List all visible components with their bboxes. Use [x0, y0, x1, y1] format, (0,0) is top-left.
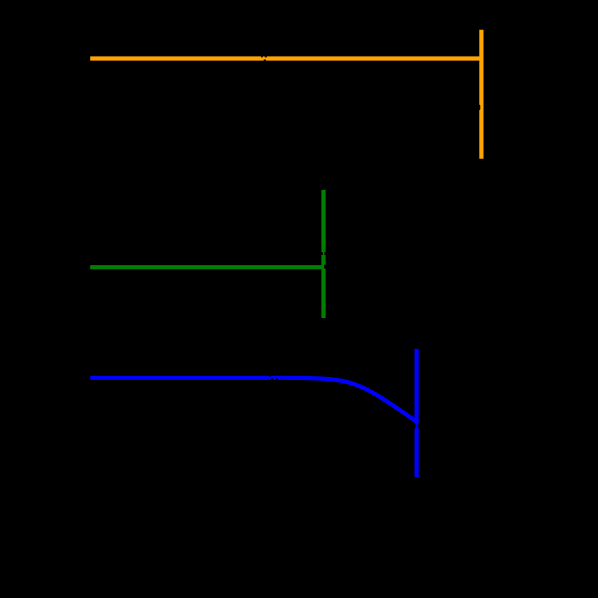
black text notch on blue vertical bar left side [414, 424, 416, 429]
black text notch overlapping orange horizontal line [261, 55, 263, 57]
orange horizontal level line [90, 56, 481, 60]
blue vertical bar [415, 349, 419, 478]
green horizontal level line [90, 265, 323, 269]
black text notch on blue vertical bar right side [418, 425, 420, 428]
blue decaying curve [90, 378, 416, 422]
black text notch under orange horizontal line [264, 60, 266, 62]
black text notch upper-left on green vertical bar [321, 252, 323, 255]
black text notch on orange vertical bar [477, 105, 481, 111]
black text notch upper-right on green vertical bar [324, 252, 326, 255]
black text notch lower on green vertical bar [324, 265, 326, 269]
green vertical bar [321, 190, 325, 318]
orange vertical bar [479, 30, 483, 159]
black text specks on blue flat line [269, 375, 271, 377]
